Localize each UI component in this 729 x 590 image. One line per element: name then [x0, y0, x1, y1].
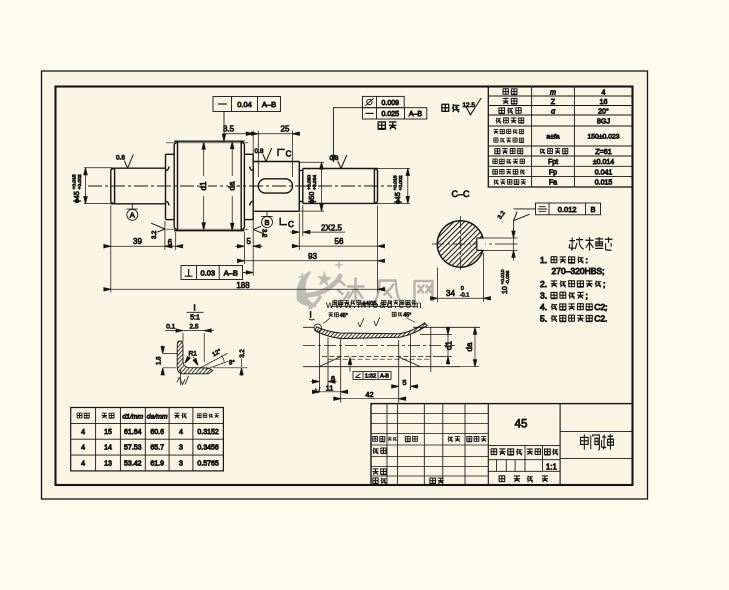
svg-text:Fpt: Fpt: [548, 159, 558, 166]
svg-text:2X2.5: 2X2.5: [321, 223, 342, 232]
svg-text:0.015: 0.015: [595, 180, 613, 187]
svg-text:4: 4: [602, 87, 606, 96]
shaft section circle hatched: [437, 221, 483, 267]
pizhun: [430, 478, 436, 484]
svg-text:0.009: 0.009: [382, 100, 400, 107]
r3 pressure angle: [499, 108, 505, 114]
svg-text:0.03: 0.03: [200, 268, 215, 277]
r6 mating gear: [495, 149, 500, 154]
svg-text:16: 16: [600, 97, 608, 106]
svg-text:14: 14: [104, 445, 112, 452]
small cells row: [497, 460, 543, 472]
chamfer label right: [392, 312, 415, 322]
dim 6: [165, 245, 176, 247]
dim 2X2.5: [291, 231, 346, 233]
outer border frame: [42, 71, 648, 499]
sheet interior tint: [42, 71, 648, 499]
svg-text:3.2: 3.2: [240, 349, 246, 358]
svg-text:3.2: 3.2: [261, 229, 267, 238]
svg-text:A-B: A-B: [380, 374, 389, 380]
svg-text:Fp: Fp: [549, 170, 557, 177]
title jishu yaoqiu (bold strokes): [569, 237, 612, 251]
angle lines and labels: [201, 353, 229, 369]
svg-text:0.3152: 0.3152: [197, 429, 219, 436]
gong zhang di zhang: [499, 476, 505, 482]
svg-text:4: 4: [81, 429, 85, 436]
r5 center distance (2-line label): [494, 129, 499, 134]
svg-text:2.: 2.: [540, 279, 547, 289]
r4 accuracy grade: [496, 118, 501, 124]
svg-text:2.5: 2.5: [189, 324, 198, 331]
headers: [77, 413, 82, 418]
gdt frame perpendicularity 0.03 A-B: [181, 266, 251, 280]
wm swoosh logo: [298, 262, 343, 308]
svg-text:4: 4: [179, 429, 183, 436]
svg-text::: :: [586, 255, 588, 265]
extension lines: [111, 205, 378, 293]
dim 93: [244, 260, 377, 262]
svg-text:+0.002: +0.002: [398, 175, 404, 190]
section C mark top: [278, 149, 285, 156]
svg-text:10: 10: [502, 286, 509, 294]
keyway notch: [477, 238, 485, 250]
svg-text:5:1: 5:1: [190, 315, 200, 322]
view body verticals: [319, 327, 430, 402]
column lines: [532, 87, 575, 187]
svg-text:6: 6: [168, 238, 173, 247]
phi45 left dim: [84, 168, 112, 204]
bili: [544, 449, 550, 455]
dim 1.8 left: [163, 354, 178, 368]
svg-text:65.7: 65.7: [150, 445, 164, 452]
svg-text:60.6: 60.6: [150, 429, 164, 436]
data rows: [81, 429, 219, 468]
svg-text:C: C: [286, 149, 292, 158]
svg-text:8°: 8°: [229, 361, 235, 367]
right collar: [244, 154, 253, 219]
centerlines: [460, 216, 462, 273]
svg-text:C2;: C2;: [594, 302, 607, 312]
svg-text:ϕ50: ϕ50: [309, 192, 316, 204]
gear crown edge lines: [166, 142, 248, 144]
r2 teeth: [503, 98, 509, 104]
svg-text:13: 13: [104, 461, 112, 468]
svg-text:0: 0: [461, 286, 464, 292]
r9 Fa: [494, 179, 499, 184]
wm char wang: [415, 281, 433, 301]
keyway width ext lines: [484, 238, 518, 250]
liangchu label (two places): [378, 122, 386, 129]
note text above: [331, 300, 418, 307]
dim 25: [258, 133, 292, 135]
svg-text:42: 42: [365, 390, 373, 399]
svg-text:4: 4: [81, 461, 85, 468]
d1 dim right: [420, 335, 452, 357]
svg-text:4.: 4.: [540, 302, 547, 312]
finish checks on crown: [358, 317, 380, 327]
svg-text:m: m: [550, 87, 556, 96]
svg-text:3: 3: [179, 445, 183, 452]
gdt stacked frames 0.009 / 0.025 A-B: [333, 96, 426, 159]
svg-text:I: I: [193, 303, 195, 313]
wm char mu: [338, 279, 364, 302]
left grid rows: [371, 414, 488, 477]
svg-text:B: B: [264, 218, 269, 227]
svg-text:ϕ45: ϕ45: [74, 191, 81, 203]
right block: [560, 432, 632, 459]
left collar: [166, 154, 175, 219]
svg-text:0.3456: 0.3456: [197, 445, 219, 452]
svg-text:;: ;: [603, 279, 605, 289]
svg-text:45°: 45°: [403, 313, 411, 319]
shenhe: [373, 469, 379, 475]
finish mark 3.2 right collar face: [253, 226, 267, 235]
r8 Fp: [493, 170, 498, 175]
svg-text:0.5765: 0.5765: [197, 461, 219, 468]
finish 3.2 on keyway: [513, 221, 515, 231]
svg-text:±0.014: ±0.014: [593, 159, 614, 166]
wm char feng: [376, 281, 400, 301]
dim 10 keyway width: [513, 228, 515, 261]
svg-text:+0.034: +0.034: [312, 175, 318, 190]
svg-text:20°: 20°: [598, 106, 609, 115]
jieduanbiaoji: [491, 449, 497, 455]
svg-text:0.025: 0.025: [382, 111, 400, 118]
svg-text:3.: 3.: [540, 291, 547, 301]
centerline: [303, 345, 455, 347]
svg-text:3.5: 3.5: [223, 125, 235, 134]
svg-text:270–320HBS;: 270–320HBS;: [552, 266, 605, 276]
svg-text:;: ;: [586, 291, 588, 301]
dim 3.2 right: [213, 367, 248, 369]
keyway slot: [258, 179, 292, 193]
svg-text:0.04: 0.04: [237, 100, 252, 109]
bottom edge and flank diagonals: [303, 366, 460, 368]
svg-text:8GJ: 8GJ: [597, 116, 611, 125]
svg-text:+0.002: +0.002: [77, 174, 83, 189]
gongyi: [373, 478, 379, 483]
L profile hatched: [177, 341, 213, 374]
hidden lines: [322, 356, 437, 358]
dim 39: [111, 245, 165, 247]
tooth crown band hatched: [315, 323, 427, 339]
svg-text:39: 39: [133, 237, 142, 246]
svg-text:ϕ45: ϕ45: [395, 192, 402, 204]
left journal phi45: [111, 168, 166, 204]
left grid verticals: [387, 404, 465, 485]
right journal phi45: [299, 169, 377, 204]
svg-text:4: 4: [81, 445, 85, 452]
svg-text:+0.015: +0.015: [393, 175, 399, 190]
svg-text:B: B: [590, 205, 595, 214]
svg-text:45: 45: [515, 419, 528, 431]
row lines: [488, 96, 632, 177]
finish mark 3.2 left collar face: [151, 223, 165, 232]
svg-text:0.1: 0.1: [166, 324, 175, 331]
svg-text:+0.010: +0.010: [500, 269, 506, 284]
svg-text:da: da: [228, 181, 237, 190]
svg-text:+0.015: +0.015: [72, 174, 78, 189]
detail dims 6 11 42 5: [311, 381, 337, 383]
da diameter dim inside gear: [231, 143, 233, 230]
svg-text:188: 188: [236, 281, 250, 290]
svg-text:1:1: 1:1: [546, 462, 558, 471]
svg-text:6: 6: [331, 374, 335, 383]
svg-text:5.: 5.: [540, 314, 547, 324]
phi50 dim: [299, 162, 324, 211]
datum A: [127, 204, 138, 221]
svg-text:15: 15: [104, 429, 112, 436]
gdt frame flatness 0.04 A-B: [213, 97, 281, 139]
sheji: [373, 448, 379, 454]
svg-text:150±0.023: 150±0.023: [587, 134, 619, 141]
svg-text:93: 93: [308, 252, 317, 261]
da dim right: [455, 366, 479, 368]
finish mark 0.8 right journal: [330, 155, 347, 169]
keyway section phi50: [253, 162, 299, 212]
datum B: [261, 211, 272, 227]
gdt taper frame 1:32 A-B: [350, 359, 391, 380]
dim 3.5: [224, 133, 253, 135]
d1 diameter dim inside gear: [203, 143, 205, 229]
finish mark 0.8 left journal: [116, 155, 133, 169]
svg-text:5: 5: [402, 378, 406, 387]
svg-text:1.8: 1.8: [157, 356, 163, 365]
svg-text:Z=61: Z=61: [595, 147, 612, 156]
svg-text:57.53: 57.53: [124, 445, 142, 452]
svg-text:C: C: [288, 220, 294, 229]
svg-text:C–C: C–C: [451, 189, 470, 199]
svg-text:53.42: 53.42: [124, 461, 142, 468]
svg-text:Z: Z: [551, 97, 556, 106]
svg-text:61.9: 61.9: [150, 461, 164, 468]
dim 5: [235, 245, 263, 247]
svg-text:Fa: Fa: [549, 180, 557, 187]
bottom finish marks: [177, 376, 189, 385]
svg-text:1.: 1.: [540, 255, 547, 265]
svg-text:a±fa: a±fa: [546, 134, 559, 141]
svg-text:61.64: 61.64: [124, 429, 142, 436]
svg-text:A–B: A–B: [409, 111, 423, 118]
svg-text:3: 3: [179, 461, 183, 468]
svg-text:da: da: [465, 342, 474, 351]
gdt frame symmetry 0.012 B: [514, 203, 601, 215]
phi45 right dim: [378, 169, 411, 204]
svg-text:I: I: [310, 311, 312, 320]
qiyu (others) 12.5 finish: [441, 104, 449, 111]
finish mark 0.8 keyway section: [255, 148, 272, 162]
svg-text:12.5: 12.5: [463, 102, 476, 109]
main verticals: [488, 404, 560, 485]
row4 labels: biaoji chushu fenqu qianming nianyueri: [372, 436, 377, 441]
dim 34: [438, 253, 484, 302]
svg-text:1:32: 1:32: [365, 374, 376, 380]
svg-text:45°: 45°: [340, 313, 348, 319]
svg-text:-0.1: -0.1: [460, 293, 469, 299]
inner border frame: [56, 87, 633, 486]
shaft centerline: [88, 185, 392, 187]
svg-text:11: 11: [326, 383, 334, 392]
section C mark bottom: [280, 218, 287, 225]
dim 56: [299, 245, 377, 247]
svg-text:C2.: C2.: [594, 314, 607, 324]
zhongliang: [527, 449, 533, 455]
svg-text:-0.036: -0.036: [505, 270, 511, 284]
svg-text:34: 34: [446, 289, 455, 298]
chamfer label left: [324, 313, 348, 324]
svg-text:d1: d1: [445, 341, 454, 350]
svg-text:56: 56: [335, 237, 344, 246]
small detail circle at left edge: [314, 324, 321, 331]
svg-text:0.012: 0.012: [558, 205, 577, 214]
r1 modulus: [503, 89, 509, 94]
svg-text:25: 25: [281, 125, 290, 134]
top lines: [303, 326, 480, 328]
dim 188: [111, 288, 378, 290]
small mark bottom left: [314, 387, 321, 393]
svg-text:d1/mm: d1/mm: [122, 414, 143, 421]
part name zhongjianzhou: [581, 434, 614, 450]
r7 Fpt: [493, 159, 498, 164]
svg-text:0.041: 0.041: [595, 170, 613, 177]
gear body: [174, 141, 244, 231]
svg-text:A–B: A–B: [262, 100, 276, 109]
svg-text:+0.050: +0.050: [307, 175, 313, 190]
svg-text:5: 5: [246, 237, 251, 246]
svg-text:A–B: A–B: [224, 268, 238, 277]
svg-text:d1: d1: [199, 181, 208, 190]
svg-text:da/mm: da/mm: [147, 414, 168, 421]
WATERMARK: [298, 262, 433, 311]
svg-text:3.2: 3.2: [152, 230, 158, 239]
svg-text:A: A: [130, 211, 135, 220]
